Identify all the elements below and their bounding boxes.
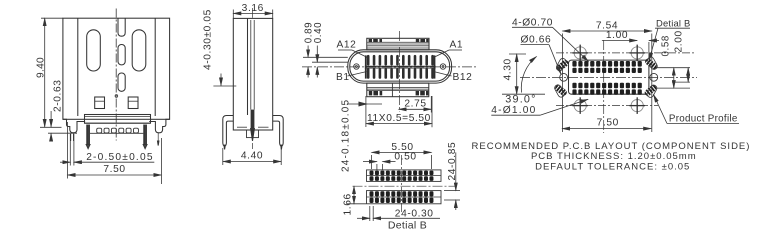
svg-text:Product Profile: Product Profile xyxy=(669,114,738,125)
svg-text:4-0.30±0.05: 4-0.30±0.05 xyxy=(203,9,214,70)
front view board lock peg right xyxy=(149,119,169,145)
svg-text:4.30: 4.30 xyxy=(502,58,513,80)
dimension 2.75 xyxy=(399,96,432,113)
front view square hole right xyxy=(128,97,138,109)
svg-text:4-Ø0.70: 4-Ø0.70 xyxy=(512,17,553,28)
front view square hole left xyxy=(95,97,105,109)
dimension 4.30 xyxy=(502,54,516,94)
dimension 1.00 extension line xyxy=(648,42,650,58)
dimension 0.58 xyxy=(660,35,673,88)
dimension 4.30 ticks xyxy=(502,54,545,94)
svg-text:24-0.85: 24-0.85 xyxy=(447,142,458,181)
label A12 xyxy=(337,40,368,58)
note line 3 xyxy=(535,162,690,173)
note line 1 xyxy=(472,141,751,152)
pcb pad area outline xyxy=(569,60,649,94)
dimension 24-0.30 xyxy=(357,209,440,220)
dimension Ø0.66 xyxy=(521,35,562,75)
front view body outline xyxy=(63,18,170,119)
side view body outline xyxy=(233,18,272,130)
label Product Profile xyxy=(654,95,740,125)
dimension 7.54 xyxy=(562,21,651,32)
dimension 24-0.85 xyxy=(447,142,458,210)
svg-text:DEFAULT TOLERANCE: ±0.05: DEFAULT TOLERANCE: ±0.05 xyxy=(535,162,690,173)
top view rear bar pads right xyxy=(416,39,429,42)
dimension 3.16 xyxy=(233,3,272,18)
dimension 4-Ø1.00 xyxy=(491,99,588,116)
svg-text:0.50: 0.50 xyxy=(394,152,416,163)
side view board lock peg right xyxy=(273,116,284,150)
svg-text:2-0.63: 2-0.63 xyxy=(52,80,63,113)
label Detial B top xyxy=(649,17,690,60)
label B1 xyxy=(336,72,367,83)
svg-text:A1: A1 xyxy=(450,40,464,51)
dimension 39.0 degree arc xyxy=(505,57,536,106)
dimension 24-0.18±0.05 xyxy=(341,96,383,172)
dimension 4-Ø0.70 xyxy=(512,17,589,61)
dimension 5.50 xyxy=(372,142,432,153)
pcb layout dashed hole line bottom xyxy=(556,105,658,107)
dimension 24-0.85 ticks xyxy=(444,191,460,200)
svg-text:4-Ø1.00: 4-Ø1.00 xyxy=(491,105,536,116)
top view pin row end caps xyxy=(365,55,436,78)
top view horizontal centerline xyxy=(302,66,478,68)
side view centerline xyxy=(252,8,254,149)
label Detial B bottom xyxy=(388,220,427,232)
front view collar xyxy=(85,115,151,124)
svg-text:0.40: 0.40 xyxy=(313,22,324,43)
dimension 0.89 ticks xyxy=(303,57,348,62)
detail B pin row B xyxy=(367,191,442,204)
top view front bar pads left xyxy=(369,91,382,95)
top view end screw left xyxy=(354,64,359,69)
dimension 1.66 tick xyxy=(347,203,366,205)
svg-text:3.16: 3.16 xyxy=(242,3,264,14)
top view front bar xyxy=(367,83,429,97)
svg-text:9.40: 9.40 xyxy=(36,57,47,78)
dimension 24-0.30 extension lines xyxy=(370,206,373,221)
front view board lock peg left xyxy=(63,119,85,141)
svg-text:B1: B1 xyxy=(336,72,350,83)
svg-text:7.50: 7.50 xyxy=(103,164,125,175)
pcb hole bottom-left xyxy=(572,97,588,114)
front view slot left xyxy=(87,30,101,71)
top view pin row A xyxy=(367,55,434,66)
svg-text:2-0.50±0.05: 2-0.50±0.05 xyxy=(86,152,154,163)
top view pin bus lines xyxy=(365,66,436,68)
top view end screw right xyxy=(440,64,445,69)
front view inner wall left xyxy=(77,18,79,116)
dimension 5.50 extension lines xyxy=(372,155,432,169)
front view centerline xyxy=(115,9,117,141)
pcb pad row bottom xyxy=(572,83,641,95)
dimension 9.40 extension bottom xyxy=(40,126,62,128)
top view vertical centerline xyxy=(398,31,400,112)
front view inner wall right xyxy=(154,18,156,116)
dimension 2-0.63 xyxy=(51,80,63,142)
side view inner wall line xyxy=(247,18,249,115)
dimension 2.00 xyxy=(673,30,688,82)
svg-text:11X0.5=5.50: 11X0.5=5.50 xyxy=(367,113,431,124)
front view collar bottom line xyxy=(85,122,151,124)
dimension 7.50 pcb xyxy=(562,117,651,128)
side view pin column xyxy=(251,20,254,110)
svg-text:7.50: 7.50 xyxy=(597,117,619,128)
dimension 11X0.5=5.50 xyxy=(366,96,432,127)
top view rear bar xyxy=(367,38,429,50)
right profile tick mid xyxy=(672,81,690,83)
side view pin dark xyxy=(251,110,255,141)
detail B horizontal centerline xyxy=(353,185,456,187)
front view center tab 1 xyxy=(118,18,125,36)
svg-text:0.58: 0.58 xyxy=(660,35,671,56)
dimension 4.40 extension lines xyxy=(223,148,281,165)
dimension 2-0.63 ticks xyxy=(48,132,77,134)
dimension 9.40 xyxy=(36,18,47,127)
side view bottom step xyxy=(237,126,269,128)
top view front bar pads right xyxy=(416,91,429,95)
svg-text:1.66: 1.66 xyxy=(343,193,354,215)
svg-text:Ø0.66: Ø0.66 xyxy=(521,35,552,46)
dimension 0.50 xyxy=(363,152,417,163)
front view solder leg right xyxy=(143,125,147,149)
pcb side circle right xyxy=(650,73,658,81)
dimension 4.40 xyxy=(223,150,281,161)
svg-text:4.40: 4.40 xyxy=(241,150,263,161)
pcb shield pad top-right xyxy=(644,56,659,71)
svg-text:24-0.18±0.05: 24-0.18±0.05 xyxy=(341,99,352,172)
svg-text:2.75: 2.75 xyxy=(404,99,426,110)
pcb shield pad bottom-left xyxy=(554,84,569,99)
label A1 xyxy=(434,40,464,58)
pcb layout dashed hole line top xyxy=(556,52,694,54)
front view center tab 2 xyxy=(118,45,125,65)
svg-text:B12: B12 xyxy=(453,72,473,83)
pcb shield pad top-left xyxy=(555,57,570,72)
detail B pin row A xyxy=(367,170,442,182)
pcb side circle left xyxy=(560,73,568,81)
svg-text:Detial B: Detial B xyxy=(388,220,427,232)
dimension 7.50 extension lines xyxy=(68,122,162,184)
note line 2 xyxy=(531,151,697,162)
svg-text:2.00: 2.00 xyxy=(673,30,684,52)
pcb hole top-right xyxy=(629,45,645,62)
dimension 7.50 xyxy=(68,164,162,175)
dimension 0.40 xyxy=(313,22,324,78)
right profile tick top xyxy=(656,67,690,69)
top view rear bar pads left xyxy=(369,39,382,42)
front view solder leg left xyxy=(86,125,90,149)
front view centerline dot xyxy=(115,95,118,98)
pcb layout vertical centerline xyxy=(603,40,605,133)
top view shell stadium xyxy=(348,50,452,83)
dimension 1.66 xyxy=(343,186,355,215)
dimension 1.00 xyxy=(602,30,659,41)
dimension 9.40 extension top xyxy=(41,17,63,19)
svg-text:A12: A12 xyxy=(337,40,357,51)
side view bottom block xyxy=(247,130,259,138)
front view slot right xyxy=(132,30,146,71)
dimension 0.50 extension lines xyxy=(377,164,383,170)
svg-text:1.00: 1.00 xyxy=(606,30,628,41)
svg-text:39.0°: 39.0° xyxy=(505,94,536,106)
top view pin row B xyxy=(367,68,434,79)
dimension 7.54 extension lines xyxy=(562,34,651,133)
side view board lock peg left xyxy=(223,116,234,150)
pcb layout horizontal centerline xyxy=(520,76,697,78)
svg-text:24-0.30: 24-0.30 xyxy=(395,209,434,220)
dimension 4-0.30±0.05 xyxy=(203,9,237,86)
label B12 xyxy=(434,72,473,83)
right profile tick bottom xyxy=(656,87,690,89)
dimension 2-0.50 extension lines xyxy=(70,134,74,166)
detail B vertical centerline xyxy=(401,155,403,212)
front view teeth row xyxy=(90,128,145,133)
pcb hole top-left xyxy=(572,45,588,62)
pcb hole bottom-right xyxy=(629,97,645,114)
pcb pad row top xyxy=(572,61,641,73)
dimension 0.89 xyxy=(304,22,315,78)
svg-text:Detial B: Detial B xyxy=(656,17,690,28)
dimension 2-0.50±0.05 xyxy=(60,152,154,163)
front view center tab 3 xyxy=(118,73,125,91)
pcb shield pad bottom-right xyxy=(643,84,658,99)
